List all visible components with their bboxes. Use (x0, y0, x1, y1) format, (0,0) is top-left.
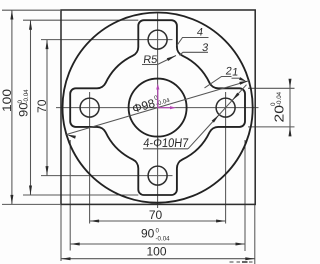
dimension D98 0/-0.04 diagonal diameter (66, 81, 248, 135)
dimension 90 0/-0.04 bottom (70, 243, 245, 245)
extension lines 90 bottom (69, 140, 71, 251)
crop centerline dashes bottom right (230, 261, 253, 263)
svg-text:-0.04: -0.04 (276, 91, 283, 106)
extension lines 90 left (23, 19, 138, 21)
extension lines 20 right (248, 87, 295, 89)
svg-text:70: 70 (149, 208, 163, 222)
extension lines 100 bottom (60, 205, 62, 261)
dimension 70 left (46, 40, 48, 176)
hole right D10H7 (216, 98, 235, 117)
svg-text:4-Φ10H7: 4-Φ10H7 (143, 136, 189, 150)
centerline vertical axis (157, 13, 159, 208)
cross boss outline with notches (70, 20, 245, 195)
extension lines 100 left (2, 9, 60, 11)
centerline right hole vertical / 70 extension (225, 92, 227, 224)
svg-text:-0.04: -0.04 (23, 89, 30, 104)
svg-text:0: 0 (156, 228, 160, 235)
svg-text:20: 20 (272, 105, 287, 123)
centerline horizontal axis (56, 107, 259, 109)
centerline top hole horizontal / 70 extension (41, 39, 173, 41)
square blank outline 100x100 (61, 10, 255, 204)
hole left D10H7 (80, 98, 99, 117)
svg-text:100: 100 (0, 89, 14, 112)
outer circle D98 (63, 13, 253, 203)
dimension 100 bottom (61, 258, 255, 260)
dimension 70 bottom (90, 220, 226, 222)
svg-text:70: 70 (35, 99, 49, 113)
svg-text:90: 90 (141, 227, 155, 241)
UCS origin icon magenta (158, 86, 174, 108)
svg-text:-0.04: -0.04 (156, 236, 171, 243)
dimension 90 0/-0.04 left (30, 20, 32, 195)
centerline left hole vertical / 70 extension (89, 92, 91, 224)
center bore circle (129, 79, 187, 137)
centerline bottom hole horizontal / 70 extension (41, 175, 173, 177)
dimension 20 0/-0.04 right (289, 79, 291, 136)
svg-text:100: 100 (146, 245, 166, 259)
hole bottom D10H7 (148, 166, 167, 185)
dimension 100 left (11, 10, 13, 204)
hole top D10H7 (148, 30, 167, 49)
